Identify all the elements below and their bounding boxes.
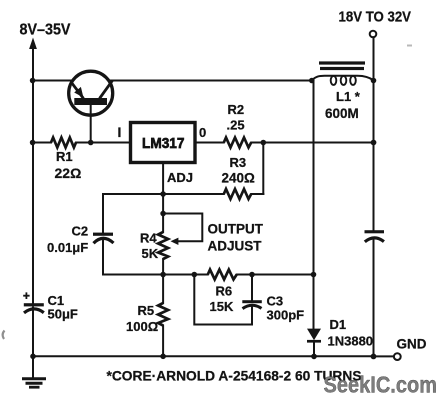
svg-text:18V TO 32V: 18V TO 32V — [339, 9, 412, 26]
capacitor C4 curved plate — [365, 238, 384, 242]
svg-text:ADJUST: ADJUST — [208, 239, 263, 254]
wire LM317 out to R2 — [195, 142, 224, 144]
node output junction — [261, 140, 267, 146]
svg-text:I: I — [118, 124, 122, 140]
svg-text:LM317: LM317 — [142, 135, 185, 152]
node junction right rail ground — [371, 354, 377, 360]
node junction base — [88, 140, 94, 146]
transistor Q1 circle — [69, 71, 113, 115]
wire R6 to D1 column — [237, 274, 314, 276]
svg-text:100Ω: 100Ω — [126, 319, 158, 334]
wire ADJ lead — [162, 163, 164, 233]
svg-text:50μF: 50μF — [48, 307, 78, 322]
diode D1 bottom lead — [313, 343, 315, 357]
capacitor C3 bottom lead — [251, 306, 253, 325]
capacitor C1 plus sign — [23, 292, 29, 299]
transistor Q1 base lead — [90, 105, 92, 143]
inductor L1 core bar bottom — [320, 67, 364, 70]
svg-text:GND: GND — [397, 337, 427, 352]
capacitor C3 top plate — [242, 300, 261, 303]
terminal GND circle — [394, 353, 401, 360]
node junction D1 ground — [311, 354, 317, 360]
node junction D1 top — [311, 272, 317, 278]
node junction wiper tap — [160, 211, 166, 217]
svg-text:0: 0 — [199, 125, 206, 140]
wire D1 anode lead — [313, 275, 315, 330]
capacitor C2 top plate — [93, 233, 113, 236]
scan artifact top right — [407, 45, 412, 47]
wire R4 to bottom row — [162, 259, 164, 303]
wire C3 loop — [194, 275, 252, 325]
transistor Q1 emitter arrow — [74, 87, 83, 98]
op-amp U1 LM317 box — [131, 123, 196, 163]
ground symbol bar 1 — [22, 377, 46, 380]
terminal VOUT circle — [370, 31, 377, 38]
resistor R3 zigzag — [224, 189, 251, 199]
svg-text:.25: .25 — [227, 118, 245, 133]
svg-text:1N3880: 1N3880 — [328, 334, 374, 349]
capacitor C2 top lead — [102, 194, 104, 233]
svg-text:240Ω: 240Ω — [222, 171, 256, 186]
ground rail — [33, 355, 374, 357]
wire wiper bracket — [163, 214, 202, 242]
inductor L1 loop 1 — [331, 76, 337, 85]
node junction R4 bottom — [160, 272, 166, 278]
node junction C1 ground — [30, 354, 36, 360]
svg-text:SeekIC.com: SeekIC.com — [324, 372, 438, 398]
wire R5 to ground rail — [162, 326, 164, 357]
wire top rail left of Q1 — [33, 80, 73, 82]
node junction C3 top — [249, 272, 255, 278]
diode D1 cathode bar — [307, 340, 321, 343]
wire right rail lower — [373, 239, 375, 357]
node junction R5 ground — [160, 354, 166, 360]
inductor L1 loop 2 — [341, 76, 347, 85]
node junction L1 left — [309, 78, 315, 84]
resistor R5 zigzag — [158, 303, 168, 326]
node junction right rail out — [371, 140, 377, 146]
transistor Q1 base bar — [74, 98, 107, 105]
capacitor C2 bottom lead — [102, 240, 104, 275]
svg-text:R5: R5 — [138, 303, 155, 318]
resistor R4 zigzag — [158, 232, 168, 259]
wire bottom mid row — [103, 274, 208, 276]
capacitor C1 curved plate — [24, 309, 44, 313]
svg-text:600M: 600M — [325, 106, 359, 121]
svg-text:5K: 5K — [142, 246, 159, 261]
svg-text:300pF: 300pF — [267, 308, 305, 323]
ground symbol stem — [32, 356, 34, 377]
capacitor C3 curved plate — [243, 305, 262, 308]
node junction ADJ row — [160, 191, 166, 197]
wire R3 to vertical — [251, 193, 263, 195]
capacitor C3 top lead — [251, 275, 253, 301]
svg-text:R1: R1 — [56, 149, 73, 164]
svg-text:L1 *: L1 * — [336, 89, 361, 104]
transistor Q1 emitter diagonal — [71, 82, 83, 98]
transistor Q1 collector diagonal — [100, 81, 113, 99]
svg-text:C3: C3 — [267, 294, 284, 309]
wire to GND terminal — [374, 355, 395, 357]
svg-text:15K: 15K — [210, 299, 234, 314]
capacitor C4 top plate — [365, 230, 385, 233]
svg-text:ADJ: ADJ — [167, 170, 193, 185]
input arrow — [29, 38, 37, 50]
ground symbol bar 3 — [29, 386, 40, 389]
wire right rail upper — [373, 37, 375, 230]
wire left rail lower — [32, 308, 34, 357]
svg-text:R6: R6 — [216, 284, 233, 299]
inductor L1 core bar top — [319, 61, 365, 64]
svg-text:C2: C2 — [72, 224, 89, 239]
capacitor C2 curved plate — [94, 238, 114, 243]
node junction rail-R1 — [30, 140, 36, 146]
diode D1 triangle — [307, 329, 321, 341]
ground symbol bar 2 — [26, 382, 43, 385]
wiper arrowhead — [171, 238, 179, 245]
svg-text:OUTPUT: OUTPUT — [208, 222, 264, 237]
wire R1 to LM317 — [76, 142, 131, 144]
wire C2 to ADJ row — [103, 193, 224, 195]
svg-text:R3: R3 — [230, 155, 247, 170]
node junction L1 right — [371, 78, 377, 84]
resistor R1 zigzag — [51, 138, 76, 148]
wire input row to R1 — [33, 142, 51, 144]
svg-text:8V–35V: 8V–35V — [20, 22, 72, 39]
inductor L1 winding line — [312, 76, 374, 81]
resistor R2 zigzag — [224, 138, 251, 148]
node junction loop left — [192, 272, 198, 278]
wire out node to right rail — [263, 142, 373, 144]
svg-text:D1: D1 — [330, 317, 347, 332]
scan artifact left edge — [3, 331, 5, 340]
svg-text:R2: R2 — [228, 102, 245, 117]
node junction left-top — [30, 78, 36, 84]
wire top rail right of Q1 — [109, 80, 313, 82]
resistor R6 zigzag — [208, 270, 237, 280]
wire R3 branch vertical — [262, 143, 264, 195]
svg-text:R4: R4 — [140, 231, 157, 246]
capacitor C1 top plate — [24, 303, 44, 306]
wire left rail upper — [32, 46, 34, 303]
wire inductor-left column — [313, 81, 315, 275]
wire R2 to out node — [251, 142, 263, 144]
svg-text:22Ω: 22Ω — [55, 165, 82, 181]
svg-text:0.01μF: 0.01μF — [47, 240, 88, 255]
inductor L1 loop 3 — [350, 76, 356, 85]
